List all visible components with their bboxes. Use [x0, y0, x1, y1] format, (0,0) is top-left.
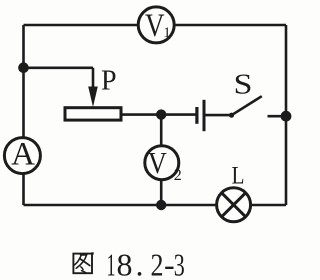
- node J2 (voltmeter V2 top tap): [156, 109, 166, 119]
- svg-text:1: 1: [107, 247, 116, 280]
- switch S lever: [232, 96, 262, 115]
- svg-text:L: L: [232, 162, 245, 189]
- wire bottom: [24, 204, 287, 207]
- svg-text:1: 1: [163, 25, 171, 41]
- svg-text:V: V: [145, 8, 165, 44]
- switch S pivot: [229, 113, 234, 118]
- svg-text:3: 3: [174, 247, 185, 280]
- wire top: [24, 24, 287, 27]
- resistor body of rheostat P: [65, 108, 121, 120]
- voltmeter V2: [145, 146, 179, 180]
- wire V2 branch lower: [160, 176, 163, 205]
- caption character 图: [73, 252, 93, 273]
- svg-text:8: 8: [117, 247, 133, 280]
- svg-text:S: S: [234, 70, 253, 101]
- slider arrowhead of rheostat P: [88, 87, 98, 108]
- wire resistor to battery: [123, 113, 197, 116]
- svg-text:A: A: [11, 136, 35, 172]
- node J1 (left branch junction): [18, 62, 29, 73]
- svg-text:.: .: [136, 247, 144, 280]
- wire left: [22, 25, 25, 205]
- wire slider branch horizontal: [24, 67, 94, 70]
- battery positive plate (long bar): [203, 100, 206, 131]
- node J4 (switch to right wire): [281, 111, 292, 122]
- svg-text:V: V: [148, 145, 168, 180]
- wire V2 branch upper: [160, 115, 163, 150]
- node J3 (voltmeter V2 bottom tap): [156, 200, 166, 210]
- svg-text:P: P: [101, 65, 117, 96]
- wire right: [285, 25, 288, 205]
- switch S fixed contact wire: [268, 115, 287, 118]
- lamp L: [217, 188, 251, 222]
- wire battery to switch: [204, 114, 231, 117]
- battery negative plate (short bar): [195, 107, 198, 124]
- ammeter A: [4, 138, 40, 174]
- wire slider branch vertical: [92, 68, 95, 88]
- svg-text:2: 2: [151, 247, 164, 280]
- voltmeter V1: [138, 7, 174, 43]
- svg-text:2: 2: [174, 167, 182, 184]
